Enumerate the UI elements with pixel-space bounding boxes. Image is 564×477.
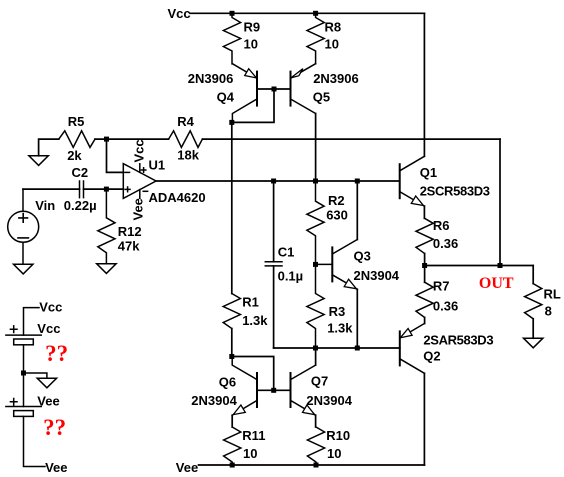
wire RL bottom lead — [532, 319, 534, 338]
wire Q7 collector lead — [315, 348, 317, 365]
svg-text:Q7: Q7 — [311, 374, 328, 389]
resistor RL — [525, 284, 561, 319]
resistor R4 — [169, 114, 203, 162]
wire Q7 emitter lead — [315, 415, 317, 427]
resistor R10 — [307, 427, 350, 465]
svg-text:R12: R12 — [118, 224, 142, 239]
wire R5 to ground — [39, 139, 59, 156]
wire C1 upper lead — [273, 181, 275, 262]
wire R5/R4 junction segment — [95, 138, 169, 140]
resistor R6 — [416, 218, 458, 253]
svg-text:2N3906: 2N3906 — [188, 71, 234, 86]
wire Vcc rail drop to Q1 collector — [423, 13, 425, 156]
svg-text:0.36: 0.36 — [433, 298, 458, 313]
resistor R12 — [98, 189, 142, 264]
svg-text:Vee: Vee — [176, 460, 198, 475]
svg-text:Q5: Q5 — [313, 90, 330, 105]
wire Q6/Q7 base link — [257, 389, 291, 391]
node OUT rail — [425, 265, 534, 267]
wire Q3 emitter drop — [356, 289, 358, 348]
svg-text:2N3904: 2N3904 — [306, 393, 352, 408]
op-amp U1 ADA4620 — [123, 139, 205, 220]
node Vcc top rail — [190, 12, 424, 14]
svg-text:R9: R9 — [244, 20, 261, 35]
wire lower rail to Q2 base — [274, 347, 400, 349]
svg-text:R10: R10 — [326, 428, 350, 443]
wire feedback drop to OUT — [499, 139, 501, 265]
svg-text:2N3904: 2N3904 — [354, 268, 400, 283]
svg-text:10: 10 — [325, 37, 339, 52]
svg-text:R8: R8 — [325, 20, 342, 35]
voltage source Vin — [8, 189, 56, 264]
node Vee bottom rail — [199, 464, 425, 466]
svg-text:ADA4620: ADA4620 — [149, 190, 206, 205]
svg-text:R6: R6 — [433, 218, 450, 233]
svg-text:Vcc: Vcc — [168, 6, 191, 21]
svg-text:Vin: Vin — [35, 198, 55, 213]
battery V2 Vee — [6, 373, 60, 467]
wire RL top lead — [532, 266, 534, 284]
svg-text:2N3904: 2N3904 — [191, 393, 237, 408]
wire op-amp output line to Q1 base — [156, 180, 400, 182]
svg-text:Vee: Vee — [37, 393, 59, 408]
ground at RL — [524, 338, 543, 348]
svg-text:R7: R7 — [433, 279, 450, 294]
svg-text:Vee: Vee — [45, 460, 67, 475]
svg-text:R5: R5 — [68, 114, 85, 129]
svg-text:630: 630 — [326, 208, 348, 223]
svg-text:2SAR583D3: 2SAR583D3 — [423, 333, 493, 348]
svg-text:10: 10 — [327, 446, 341, 461]
wire inverting input — [107, 139, 124, 172]
svg-text:8: 8 — [545, 303, 552, 318]
transistor Q4 2N3906 — [188, 64, 257, 123]
wire mirror bases link — [232, 357, 274, 391]
svg-text:R2: R2 — [328, 193, 345, 208]
svg-text:10: 10 — [243, 446, 257, 461]
resistor R9 — [223, 13, 260, 64]
resistor R5 — [59, 114, 95, 163]
wire VAS column Q4 collector to R1 — [231, 122, 233, 293]
resistor R7 — [416, 279, 458, 318]
wire base-to-collector (Q4 diode connection) — [232, 89, 274, 122]
svg-text:OUT: OUT — [479, 275, 514, 292]
wire Q5 collector drop — [315, 114, 317, 182]
wire Vin to C2 — [23, 188, 80, 190]
wire R6 bottom lead — [424, 254, 426, 266]
svg-text:10: 10 — [244, 37, 258, 52]
ground at Vin — [14, 264, 33, 274]
resistor R1 — [223, 294, 268, 329]
svg-text:U1: U1 — [149, 158, 166, 173]
svg-text:2k: 2k — [67, 148, 82, 163]
wire Q1 emitter to R6 — [423, 206, 425, 218]
svg-text:47k: 47k — [118, 239, 140, 254]
resistor R8 — [307, 13, 341, 63]
battery V1 Vcc — [6, 321, 61, 373]
wire Q4/Q5 base link — [257, 88, 291, 90]
svg-text:1.3k: 1.3k — [242, 313, 268, 328]
wire R4 to output feedback line — [202, 138, 500, 140]
ground at R12 — [97, 264, 116, 274]
transistor Q2 2SAR583D3 — [400, 324, 494, 374]
svg-text:Q4: Q4 — [217, 90, 235, 105]
capacitor C2 — [64, 165, 97, 213]
ground between batteries — [24, 373, 57, 388]
svg-text:??: ?? — [45, 341, 68, 366]
resistor R2 — [307, 181, 348, 264]
svg-text:Q2: Q2 — [423, 348, 440, 363]
resistor R3 — [307, 264, 353, 348]
wire R7 to Q2 emitter — [424, 317, 426, 323]
svg-text:Vcc: Vcc — [131, 139, 146, 162]
svg-text:2N3906: 2N3906 — [313, 71, 359, 86]
svg-text:R4: R4 — [177, 114, 194, 129]
svg-text:0.22µ: 0.22µ — [64, 198, 97, 213]
svg-text:R11: R11 — [242, 428, 265, 443]
svg-text:C2: C2 — [72, 165, 89, 180]
transistor Q1 2SCR583D3 — [400, 156, 490, 206]
wire R7 top lead — [424, 266, 426, 283]
svg-text:R3: R3 — [329, 304, 346, 319]
svg-text:Q1: Q1 — [420, 165, 437, 180]
wire Q3 collector drop — [356, 181, 358, 240]
svg-text:Q3: Q3 — [354, 249, 371, 264]
resistor R11 — [224, 427, 266, 465]
svg-text:RL: RL — [544, 287, 561, 302]
svg-text:Vcc: Vcc — [37, 321, 60, 336]
transistor Q6 2N3904 — [191, 357, 257, 416]
wire C2 to noninverting input — [84, 188, 124, 190]
node Vcc battery stub — [24, 308, 40, 336]
transistor Q5 2N3906 — [291, 64, 359, 114]
svg-text:Vee: Vee — [131, 198, 146, 220]
svg-text:0.1µ: 0.1µ — [278, 269, 304, 284]
svg-text:0.36: 0.36 — [433, 236, 458, 251]
wire R1 bottom lead — [231, 329, 233, 357]
transistor Q3 2N3904 — [316, 240, 400, 290]
svg-text:Q6: Q6 — [219, 375, 236, 390]
svg-text:C1: C1 — [278, 245, 295, 260]
ground at R5 — [29, 156, 48, 166]
svg-text:18k: 18k — [177, 147, 199, 162]
wire Q6 emitter lead — [231, 415, 233, 427]
svg-text:R1: R1 — [242, 295, 259, 310]
svg-text:2SCR583D3: 2SCR583D3 — [420, 184, 490, 199]
transistor Q7 2N3904 — [291, 365, 353, 415]
wire Q2 collector drop to Vee — [423, 373, 425, 465]
svg-text:1.3k: 1.3k — [327, 320, 353, 335]
svg-text:Vcc: Vcc — [39, 299, 62, 314]
wire C1 lower lead — [273, 266, 275, 348]
svg-text:??: ?? — [43, 415, 66, 440]
capacitor C1 — [265, 245, 303, 284]
